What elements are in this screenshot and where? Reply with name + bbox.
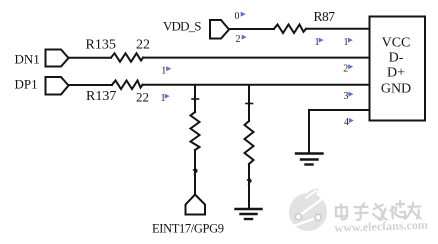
watermark logo elecfans xyxy=(289,189,327,231)
pin tick mark xyxy=(192,98,199,100)
wire vertical from DP1 net down to R-pulldown2 xyxy=(248,85,250,121)
svg-text:4: 4 xyxy=(344,117,349,128)
svg-text:D+: D+ xyxy=(387,65,405,80)
svg-text:www.elecfans.com: www.elecfans.com xyxy=(334,218,428,235)
wire DN1 to R135 xyxy=(69,57,112,59)
svg-text:VDD_S: VDD_S xyxy=(163,19,202,34)
wire VDD_S to R87 xyxy=(229,28,274,30)
wire R87 to U pin 1 xyxy=(306,28,370,30)
watermark text dianzi fashaoyou xyxy=(336,200,421,221)
pin tick mark xyxy=(248,179,252,184)
svg-text:DN1: DN1 xyxy=(15,52,40,67)
svg-text:2: 2 xyxy=(236,34,241,45)
svg-text:EINT17/GPG9: EINT17/GPG9 xyxy=(152,222,224,236)
svg-text:1: 1 xyxy=(161,66,166,77)
ground right pulldown xyxy=(236,209,262,219)
resistor R87 xyxy=(274,25,306,34)
port VDD_S xyxy=(210,20,229,39)
svg-text:3: 3 xyxy=(344,91,349,102)
svg-text:VCC: VCC xyxy=(382,36,411,51)
svg-text:22: 22 xyxy=(136,90,149,105)
svg-text:1: 1 xyxy=(344,37,349,48)
resistor R137 xyxy=(112,81,143,90)
svg-text:22: 22 xyxy=(136,38,150,53)
wire vertical from DP1 net down to R-pulldown1 xyxy=(194,85,196,112)
wire DN1 net to U pin 2 xyxy=(143,57,370,59)
ground pin 4 xyxy=(296,154,323,165)
port DP1 xyxy=(46,77,69,95)
resistor pulldown right (vertical) xyxy=(245,121,254,164)
wire resistor to ground xyxy=(248,164,250,208)
resistor pulldown left (vertical) xyxy=(191,112,200,150)
svg-text:2: 2 xyxy=(343,64,348,75)
svg-text:R135: R135 xyxy=(86,38,116,53)
resistor R135 xyxy=(111,53,143,62)
connector box U xyxy=(370,17,426,121)
svg-text:DP1: DP1 xyxy=(15,77,38,92)
pin tick mark xyxy=(194,169,198,174)
wire U pin 4 to ground xyxy=(309,110,370,152)
port DN1 xyxy=(46,50,69,67)
svg-text:R137: R137 xyxy=(86,89,116,104)
wire resistor to port EINT17 xyxy=(194,150,196,195)
wire DP1 to R137 xyxy=(69,84,113,86)
svg-text:0: 0 xyxy=(235,11,240,22)
svg-text:GND: GND xyxy=(381,82,411,97)
wire DP1 net to U pin 3 xyxy=(143,84,371,86)
svg-text:R87: R87 xyxy=(314,9,336,24)
svg-text:D-: D- xyxy=(389,51,404,66)
port EINT17/GPG9 xyxy=(186,195,206,215)
pin tick mark xyxy=(246,103,253,105)
